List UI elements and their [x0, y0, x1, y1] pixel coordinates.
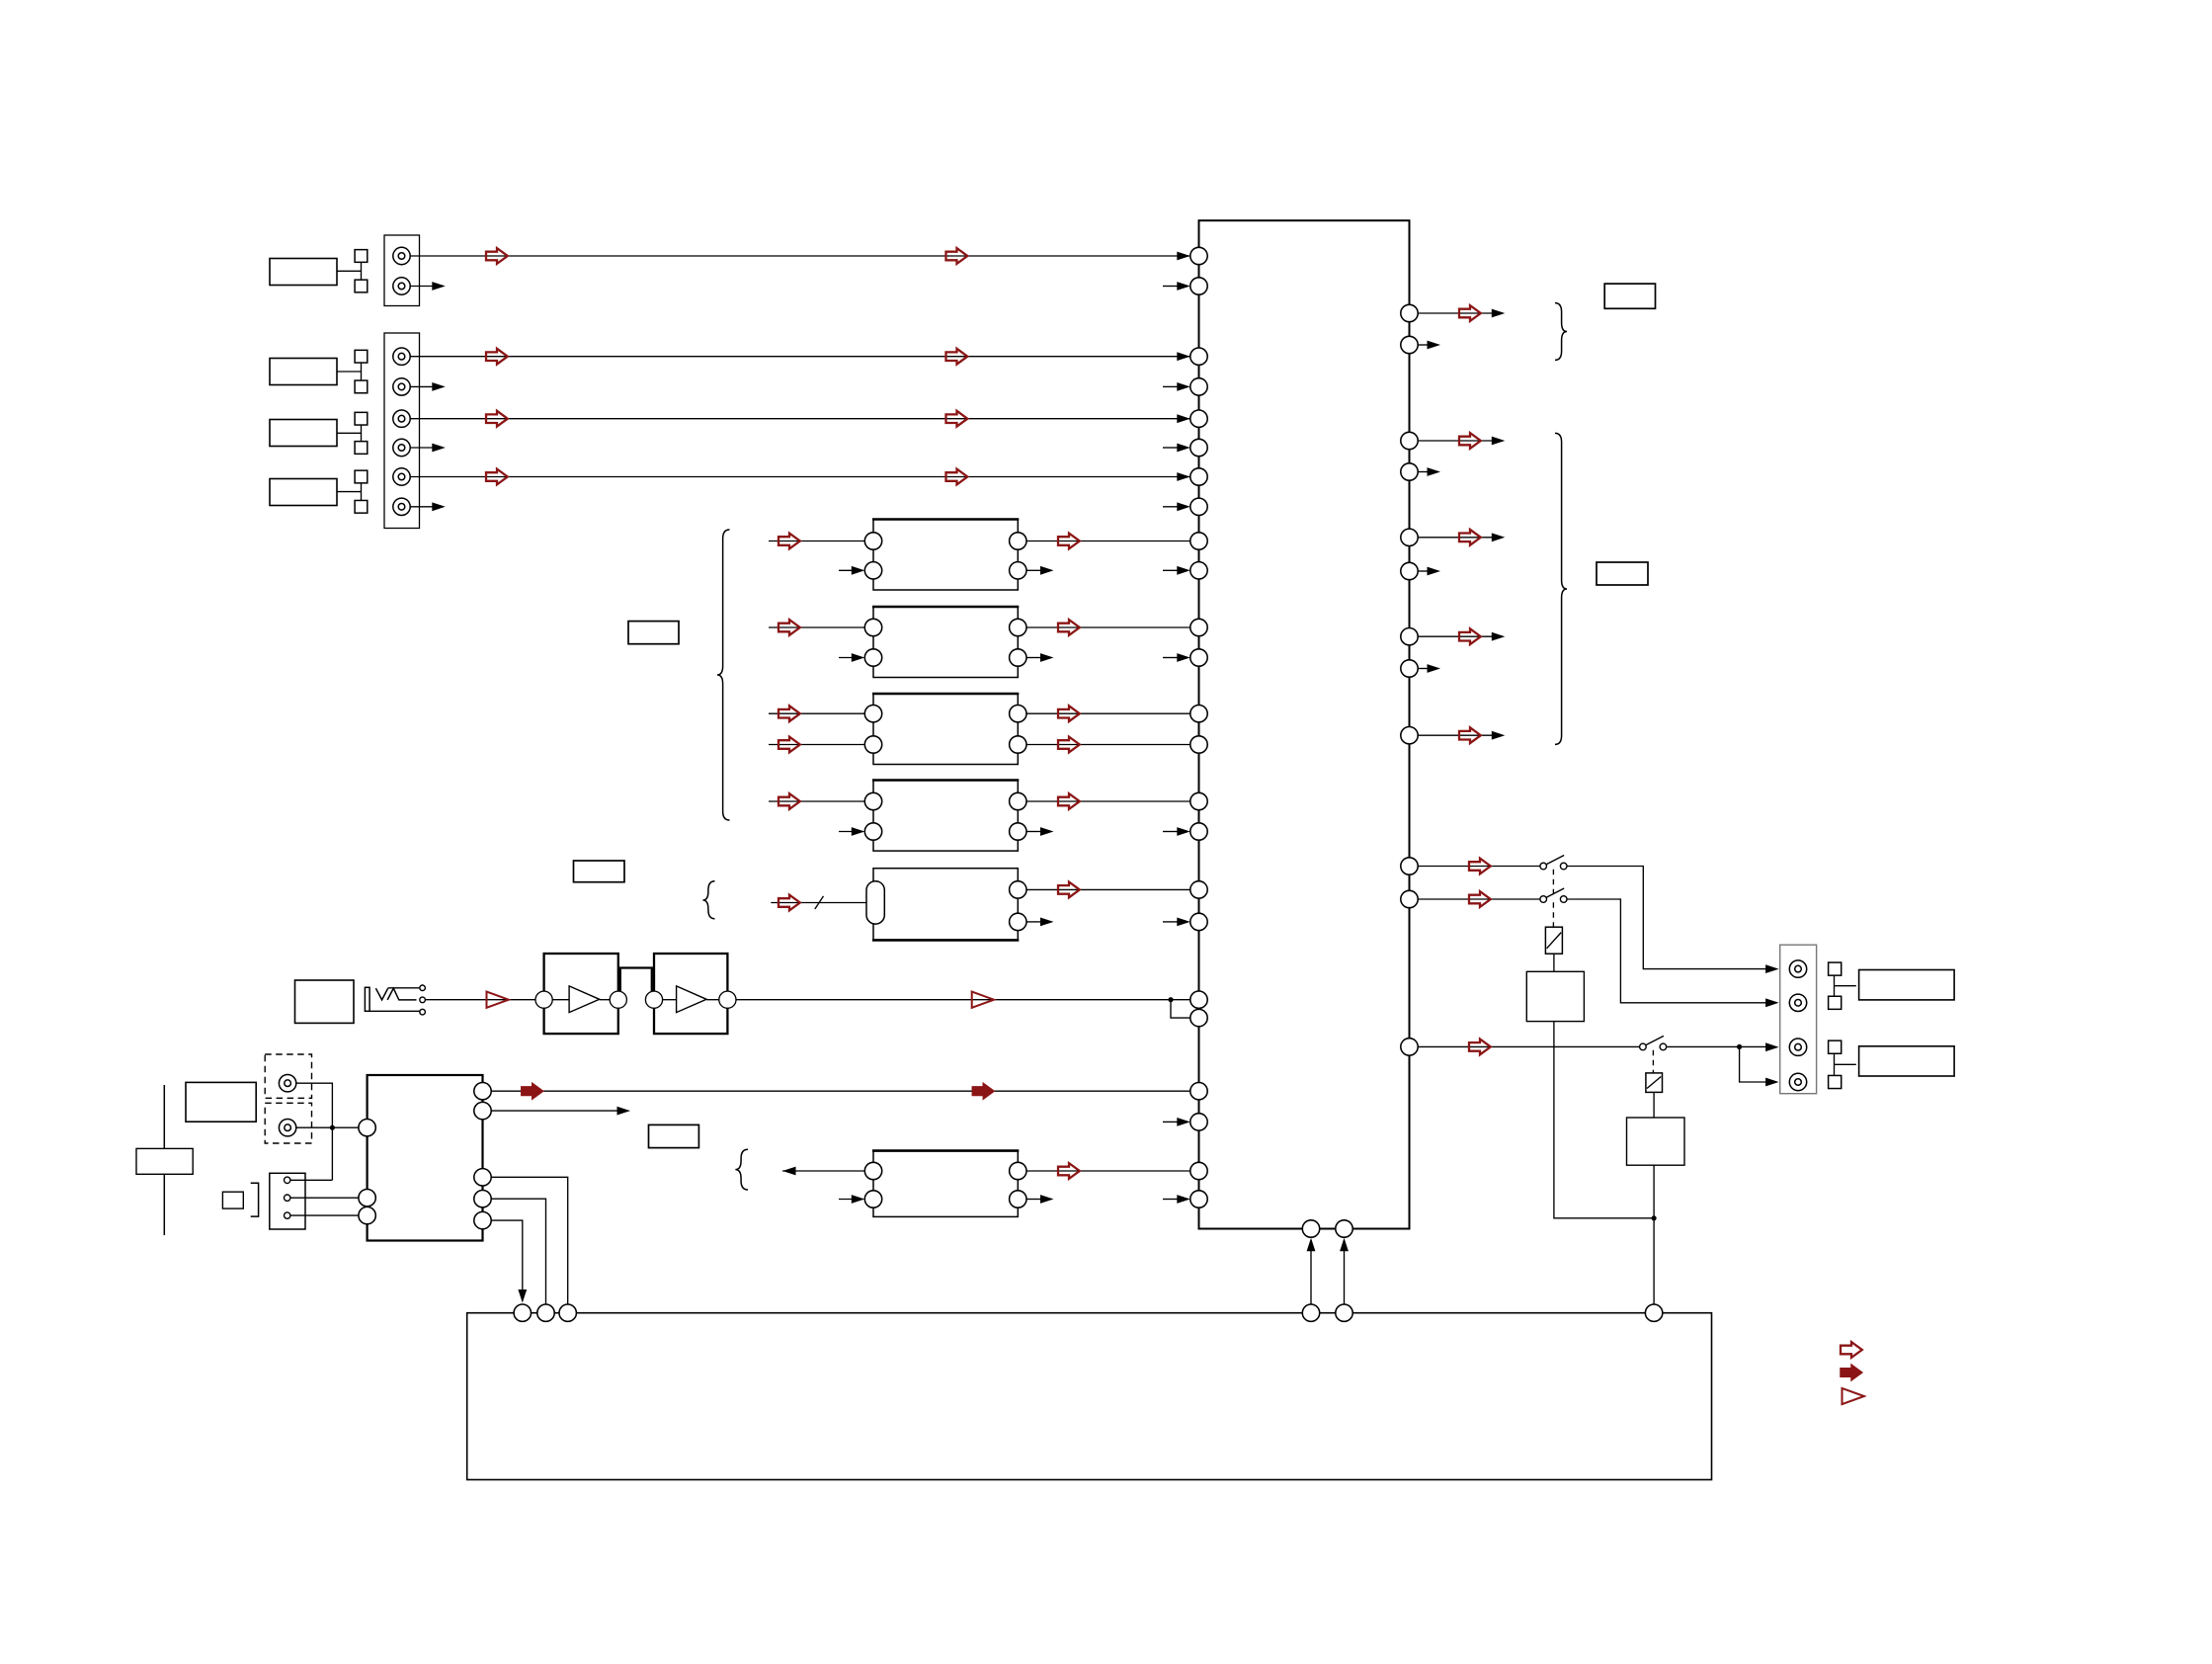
relay coil 1 — [1545, 927, 1562, 954]
switch IC left pin 5 — [1190, 410, 1207, 427]
wire stub from signal processor block U2 row B — [1026, 657, 1040, 659]
wire from signal processor block U3 row A to switch IC — [1026, 712, 1190, 714]
wire input row 2 (ground stub) — [410, 385, 432, 387]
3-pin connector box — [270, 1173, 305, 1229]
RCA jack IN2-5 — [393, 468, 410, 485]
signal processor block U3 pin in A — [864, 706, 881, 722]
signal processor block U5 — [872, 869, 1019, 941]
wire switch IC output 2 — [1418, 440, 1492, 442]
red triangle marker (headphone) — [487, 992, 509, 1008]
signal processor block U2 pin in A — [864, 619, 881, 635]
switch IC right pin 11 — [1401, 890, 1418, 907]
switch IC left pin 15 — [1190, 792, 1207, 809]
switch IC bottom pin 1 — [1302, 1220, 1319, 1237]
system control / power supply block — [467, 1313, 1712, 1480]
wire relay2 to driver2 — [1653, 1092, 1655, 1118]
wire stub from signal processor block U4 row B — [1026, 831, 1040, 833]
signal processor block U1 pin in A — [864, 533, 881, 549]
wire switch IC stub output 3 — [1418, 570, 1428, 572]
switch IC left pin 20 — [1190, 1009, 1207, 1026]
wire input row 2 (signal) — [410, 356, 1190, 358]
wire driver1 to system control — [1554, 1022, 1654, 1218]
system control pin 5 — [1336, 1304, 1352, 1321]
switch IC right pin 1 — [1401, 304, 1418, 321]
stub into switch IC row U6-B — [1163, 1199, 1179, 1201]
system control pin 2 — [537, 1304, 554, 1321]
input selector / switch IC block — [1199, 220, 1410, 1228]
speaker relay switch A — [1540, 856, 1567, 870]
block U5 pin out A — [1010, 881, 1026, 898]
switch IC left pin 9 — [1190, 533, 1207, 549]
tuner pin out 1 — [474, 1083, 491, 1100]
wire into signal processor block U4 row A — [769, 800, 864, 802]
block U6 pin in B — [864, 1191, 881, 1207]
output plug pair 2 — [1829, 1040, 1856, 1088]
switch IC left pin 23 — [1190, 1162, 1207, 1179]
cable plug pair 1 — [337, 250, 368, 292]
wire input row 1 (signal) — [410, 255, 1190, 257]
wire bus into block U5 — [771, 902, 866, 904]
junction node option — [330, 1125, 335, 1130]
dashed option jack box 1 — [265, 1054, 311, 1098]
wire input row 1 (ground stub) — [410, 286, 432, 288]
stub into switch IC row 4 — [1163, 506, 1179, 508]
wire buffer2 out — [706, 999, 719, 1001]
switch IC right pin 3 — [1401, 432, 1418, 449]
RCA jack IN2-3 — [393, 410, 410, 427]
stub into switch IC row 3 — [1163, 447, 1179, 449]
buffer node circle 4 — [719, 991, 736, 1008]
signal processor block U4 pin out B — [1010, 823, 1026, 840]
tuner/front-end block — [368, 1075, 483, 1241]
wire stub from block U6 row B — [1026, 1199, 1040, 1201]
switch IC left pin 13 — [1190, 706, 1207, 722]
stub into switch IC row B — [1163, 657, 1179, 659]
stub into switch IC row U5-B — [1163, 921, 1179, 923]
switch IC left pin 4 — [1190, 378, 1207, 395]
signal processor block U2 — [872, 607, 1019, 678]
wire switch IC stub output 4 — [1418, 668, 1428, 670]
wire from signal processor block U1 row A to switch IC — [1026, 541, 1190, 542]
wire junction to pin A — [1171, 999, 1190, 1001]
RCA jack IN2-2 — [393, 378, 410, 395]
signal processor block U4 — [872, 781, 1019, 852]
wire from signal processor block U4 row A to switch IC — [1026, 800, 1190, 802]
RCA jack IN1-B — [393, 278, 410, 294]
signal processor block U3 pin out A — [1010, 706, 1026, 722]
label box (block U5) — [574, 861, 625, 882]
headphone buffer stage 1 box — [544, 954, 618, 1034]
RCA input panel 1 — [384, 235, 420, 306]
switch IC left pin 22 — [1190, 1114, 1207, 1130]
label box (antenna/AC) — [186, 1082, 256, 1122]
junction node drivers — [1652, 1215, 1657, 1220]
wire junction step to pin B — [1171, 1000, 1190, 1018]
brace outputs group — [1555, 433, 1567, 744]
cable plug pair 4 — [337, 470, 368, 513]
wire stub into signal processor block U1 row B — [839, 569, 856, 571]
wire tuner control 1 — [491, 1177, 568, 1304]
wire inside buffer 1 — [552, 999, 569, 1001]
wire 3-pin 1 — [290, 1179, 333, 1181]
wire headphone drive — [425, 999, 535, 1001]
RCA output jack 4 — [1789, 1073, 1806, 1090]
wire input row 4 (ground stub) — [410, 506, 432, 508]
input source box 4 — [270, 479, 337, 506]
tuner pin in 1 — [359, 1120, 375, 1136]
legend: signal flow filled arrow — [1841, 1365, 1862, 1380]
label box (outputs group) — [1597, 562, 1648, 585]
wire stub into block U6 row B — [839, 1199, 856, 1201]
wire tuner control 2 — [491, 1199, 545, 1304]
headphone jack symbol — [365, 985, 425, 1015]
wire tuner stub out — [491, 1110, 617, 1112]
switch IC left pin 24 — [1190, 1191, 1207, 1207]
wire switch IC to speaker switch A — [1418, 866, 1540, 868]
label box (blocks group) — [628, 622, 679, 644]
buffer amp triangle 1 — [569, 986, 600, 1013]
brace for block U5 bus — [703, 881, 715, 919]
signal processor block U2 pin out A — [1010, 619, 1026, 635]
signal processor block U3 pin out B — [1010, 736, 1026, 753]
wire phones switch to output jack 3 — [1667, 1045, 1770, 1047]
bus slash mark — [815, 896, 824, 909]
wire switch IC output 5 — [1418, 734, 1492, 736]
switch IC left pin 19 — [1190, 991, 1207, 1008]
wire relay1 to driver — [1553, 954, 1555, 971]
signal processor block U1 pin in B — [864, 562, 881, 579]
tuner pin out 5 — [474, 1211, 491, 1228]
switch IC left pin 14 — [1190, 736, 1207, 753]
output plug pair 1 — [1829, 962, 1856, 1009]
buffer node circle 2 — [610, 991, 626, 1008]
switch IC right pin 9 — [1401, 727, 1418, 744]
block U6 pin in A — [864, 1162, 881, 1179]
speaker relay switch B — [1540, 888, 1567, 902]
wire switch IC to speaker switch B — [1418, 898, 1540, 900]
red triangle marker 2 (headphone) — [972, 992, 994, 1008]
muting switch — [1640, 1036, 1667, 1049]
legend: signal flow open arrow — [1841, 1342, 1862, 1358]
signal processor block U3 — [872, 694, 1019, 765]
label box (speaker system B) — [1859, 1046, 1955, 1076]
switch IC left pin 3 — [1190, 348, 1207, 365]
wire stub from block U5 row B — [1026, 921, 1040, 923]
switch IC left pin 21 — [1190, 1083, 1207, 1100]
brace for block U6 input — [735, 1149, 748, 1190]
block U6 pin out A — [1010, 1162, 1026, 1179]
stub into switch IC row B — [1163, 569, 1179, 571]
legend: signal flow triangle — [1843, 1388, 1864, 1404]
junction node output — [1737, 1044, 1742, 1049]
relay driver box 1 — [1526, 971, 1584, 1021]
wire stub into signal processor block U2 row B — [839, 657, 856, 659]
wire speaker B to output jack 2 — [1567, 899, 1770, 1003]
signal processor block U1 pin out B — [1010, 562, 1026, 579]
block U6 pin out B — [1010, 1191, 1026, 1207]
tuner pin out 3 — [474, 1169, 491, 1186]
remote connector bracket — [251, 1183, 259, 1216]
label box (speaker system A) — [1859, 970, 1955, 1000]
wire from block U5 row A to switch IC — [1026, 888, 1190, 890]
switch IC right pin 6 — [1401, 562, 1418, 579]
cable plug pair 3 — [337, 412, 368, 454]
wire input row 3 (signal) — [410, 418, 1190, 420]
tuner pin out 2 — [474, 1102, 491, 1119]
dashed option jack box 2 — [265, 1103, 311, 1143]
junction node headphone — [1168, 997, 1173, 1002]
headphone buffer stage 2 box — [654, 954, 727, 1034]
switch IC left pin 10 — [1190, 562, 1207, 579]
RCA input panel 2 — [384, 333, 420, 529]
input source box 2 — [270, 359, 337, 385]
signal processor block U1 — [872, 520, 1019, 591]
signal processor block U1 pin out A — [1010, 533, 1026, 549]
wire into signal processor block U3 row A — [769, 712, 864, 714]
buffer node circle 3 — [645, 991, 662, 1008]
wire tuner control 3 — [491, 1220, 523, 1295]
signal processor block U4 pin out A — [1010, 792, 1026, 809]
wire control bus 1 into switch IC — [1310, 1240, 1312, 1304]
wire control bus 2 into switch IC — [1344, 1240, 1346, 1304]
label box (headphones) — [295, 980, 355, 1023]
wire option jack 2 to tuner block — [296, 1126, 359, 1128]
signal processor block U6 — [872, 1151, 1019, 1217]
switch IC left pin 7 — [1190, 468, 1207, 485]
wire inside buffer 2 — [662, 999, 677, 1001]
RCA option jack 2 — [279, 1120, 295, 1136]
wire switch IC output 1 — [1418, 312, 1492, 314]
wire input row 3 (ground stub) — [410, 447, 432, 449]
relay coil 2 — [1646, 1073, 1663, 1093]
wire into block U6 row A — [782, 1170, 864, 1172]
wire switch IC to phones switch — [1418, 1045, 1639, 1047]
wire buffer1 out — [600, 999, 611, 1001]
RCA output jack 1 — [1789, 960, 1806, 977]
wire tuner audio out (filled arrows) — [491, 1090, 1190, 1092]
wire speaker A to output jack 1 — [1567, 867, 1770, 969]
switch IC right pin 8 — [1401, 660, 1418, 677]
wire switch IC stub output 1 — [1418, 344, 1428, 346]
tuner pin in 3 — [359, 1206, 375, 1223]
switch IC left pin 8 — [1190, 498, 1207, 515]
wire from signal processor block U3 row B to switch IC — [1026, 744, 1190, 746]
tuner pin in 2 — [359, 1190, 375, 1206]
wire option jack 1 — [296, 1083, 333, 1180]
wire switch IC output 3 — [1418, 537, 1492, 539]
wire 3-pin 3 — [290, 1214, 360, 1216]
signal processor block U2 pin in B — [864, 649, 881, 666]
relay driver box 2 — [1627, 1118, 1685, 1165]
switch IC left pin 6 — [1190, 439, 1207, 456]
brace record out pair — [1555, 303, 1567, 361]
wire junction to output jack 4 — [1740, 1046, 1770, 1082]
wire input row 4 (signal) — [410, 476, 1190, 478]
RCA output jack 2 — [1789, 994, 1806, 1011]
stub into switch IC row B — [1163, 831, 1179, 833]
stub into switch IC row 2 — [1163, 385, 1179, 387]
buffer interstage bridge — [620, 968, 652, 993]
signal processor block U2 pin out B — [1010, 649, 1026, 666]
stub into switch IC (tuner B) — [1163, 1121, 1179, 1123]
wire into signal processor block U2 row A — [769, 626, 864, 628]
switch IC right pin 10 — [1401, 858, 1418, 874]
switch IC left pin 1 — [1190, 247, 1207, 264]
RCA jack IN2-1 — [393, 348, 410, 365]
wire switch IC stub output 2 — [1418, 471, 1428, 473]
label box (block U6) — [649, 1124, 699, 1147]
wire from signal processor block U2 row A to switch IC — [1026, 626, 1190, 628]
AC power cord symbol — [136, 1085, 193, 1235]
buffer amp triangle 2 — [677, 986, 707, 1013]
RCA jack IN2-4 — [393, 439, 410, 456]
tuner pin out 4 — [474, 1191, 491, 1207]
wire buffer to switch IC — [736, 999, 1171, 1001]
label box (record out) — [1604, 284, 1655, 308]
dashed link switches to relay coil 1 — [1552, 870, 1554, 896]
wire into signal processor block U1 row A — [769, 541, 864, 542]
switch IC right pin 4 — [1401, 463, 1418, 480]
cable plug pair 2 — [337, 350, 368, 392]
switch IC left pin 16 — [1190, 823, 1207, 840]
speaker output jack panel — [1780, 945, 1817, 1093]
system control pin 1 — [514, 1304, 531, 1321]
switch IC left pin 12 — [1190, 649, 1207, 666]
system control pin 4 — [1302, 1304, 1319, 1321]
wire stub from signal processor block U1 row B — [1026, 569, 1040, 571]
switch IC right pin 2 — [1401, 336, 1418, 353]
input source box 3 — [270, 420, 337, 447]
buffer node circle 1 — [535, 991, 552, 1008]
remote connector square — [222, 1192, 243, 1208]
wire switch IC output 4 — [1418, 635, 1492, 637]
switch IC left pin 11 — [1190, 619, 1207, 635]
RCA jack IN2-6 — [393, 498, 410, 515]
stub into switch IC row 1 — [1163, 286, 1179, 288]
wire 3-pin 2 — [290, 1197, 360, 1199]
block U5 pin out B — [1010, 913, 1026, 930]
input source box 1 — [270, 259, 337, 286]
switch IC left pin 2 — [1190, 278, 1207, 294]
signal processor block U4 pin in A — [864, 792, 881, 809]
wire into signal processor block U3 row B — [769, 744, 864, 746]
wire from block U6 row A to switch IC — [1026, 1170, 1190, 1172]
wire driver2 to system control — [1653, 1165, 1655, 1304]
system control pin 6 — [1645, 1304, 1662, 1321]
signal processor block U3 pin in B — [864, 736, 881, 753]
RCA jack IN1-A — [393, 247, 410, 264]
switch IC right pin 7 — [1401, 628, 1418, 645]
system control pin 3 — [559, 1304, 576, 1321]
wire stub into signal processor block U4 row B — [839, 831, 856, 833]
brace for blocks U1-U4 — [717, 530, 730, 820]
switch IC left pin 17 — [1190, 881, 1207, 898]
RCA output jack 3 — [1789, 1039, 1806, 1055]
switch IC right pin 12 — [1401, 1039, 1418, 1055]
signal processor block U4 pin in B — [864, 823, 881, 840]
switch IC right pin 5 — [1401, 529, 1418, 545]
switch IC left pin 18 — [1190, 913, 1207, 930]
block U5 multipin connector (stadium) — [866, 881, 884, 924]
switch IC bottom pin 2 — [1336, 1220, 1352, 1237]
dashed link to relay coil 2 — [1652, 1050, 1654, 1073]
RCA option jack 1 — [279, 1075, 295, 1092]
